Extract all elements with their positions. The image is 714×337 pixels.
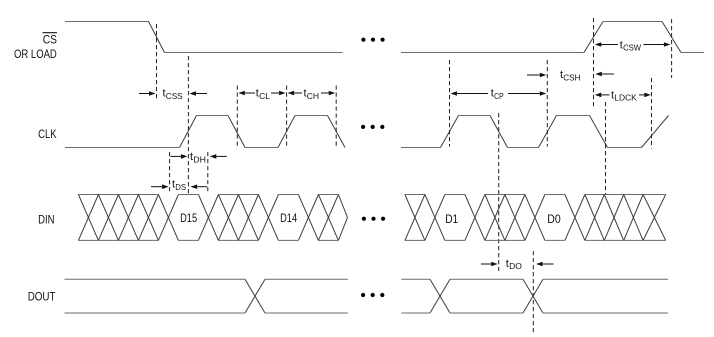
- arrow tCP right: [508, 93, 540, 95]
- wire DIN hatch X3: [118, 195, 138, 241]
- arrow tCSS left: [139, 93, 149, 95]
- svg-text:DS: DS: [175, 182, 186, 192]
- svg-text:D14: D14: [280, 211, 297, 225]
- wire DIN hatch X10: [505, 195, 525, 241]
- wire CLK fall 1: [228, 116, 245, 148]
- wire CLK high 2: [295, 115, 328, 117]
- arrow tCSW left: [601, 44, 618, 46]
- wire CLK low 2: [245, 147, 278, 149]
- wire DIN hatch X6: [238, 195, 258, 241]
- wire DIN hatch X14: [643, 195, 666, 241]
- wire DIN diverge after D1: [475, 195, 485, 241]
- guide CLK right fall 1 center: [498, 113, 500, 271]
- wire CLK right rise 3: [642, 116, 669, 148]
- wire DIN diverge after D0: [575, 195, 585, 241]
- wire DOUT left rails 1: [65, 279, 246, 313]
- wire DIN hatch X2: [98, 195, 118, 241]
- wire DIN D1 top-bottom: [445, 195, 465, 241]
- wire DOUT left rails 2: [265, 279, 348, 313]
- wire CLK right rise 2: [539, 116, 557, 148]
- wire DIN hatch X7: [318, 195, 338, 241]
- wire DIN D1 open: [435, 195, 445, 241]
- svg-text:OR LOAD: OR LOAD: [14, 47, 57, 61]
- wire DIN converge to D1: [425, 195, 435, 241]
- wire CLK right low 3: [608, 147, 642, 149]
- node DIN break dots: [362, 217, 366, 221]
- svg-text:DOUT: DOUT: [28, 289, 56, 303]
- wire DIN right rails start: [405, 195, 425, 241]
- wire DIN D14 open: [268, 195, 278, 241]
- arrow tDO right: [543, 263, 554, 265]
- wire DIN D15 open: [168, 195, 178, 241]
- wire DIN D15 close: [198, 195, 208, 241]
- arrow tCSH right: [602, 73, 614, 75]
- wire CLK fall 2: [328, 116, 346, 148]
- wire DIN hatch X5: [218, 195, 238, 241]
- guide CLK right rise 1 center: [449, 60, 451, 147]
- guide DIN D15 start: [169, 152, 171, 194]
- arrow tCH right: [321, 92, 329, 94]
- svg-text:D1: D1: [445, 212, 458, 226]
- wire DIN rails left-1: [78, 195, 158, 241]
- wire CS left high: [65, 21, 149, 23]
- guide CLK right rise 3 center: [651, 78, 653, 149]
- wire CLK right fall 2: [590, 116, 608, 148]
- arrow tDH right: [216, 155, 227, 157]
- wire CLK right low 1: [401, 147, 441, 149]
- wire CLK rise 1: [180, 116, 197, 148]
- node CS break dots: [361, 38, 365, 42]
- wire CLK high 1: [197, 115, 229, 117]
- wire DOUT crossover 1: [245, 279, 265, 313]
- wire CLK right high 1: [459, 115, 491, 117]
- wire DIN converge to D15: [158, 195, 168, 241]
- guide CLK right fall 2 end: [605, 102, 607, 194]
- wire DIN D14 close: [298, 195, 308, 241]
- wire DIN right rails mid: [485, 195, 525, 241]
- wire DIN D14 top-bottom: [278, 195, 298, 241]
- wire CS rising edge: [584, 22, 603, 53]
- wire DIN converge to D0: [525, 195, 535, 241]
- guide CS fall 2 center: [671, 19, 673, 78]
- svg-text:DO: DO: [509, 261, 522, 271]
- wire DIN D0 top-bottom: [545, 195, 565, 241]
- CS overline: [43, 32, 58, 34]
- svg-text:DIN: DIN: [38, 212, 54, 226]
- wire DIN hatch X12: [604, 195, 623, 241]
- wire DIN D0 close: [565, 195, 575, 241]
- arrow tCSW right: [644, 44, 664, 46]
- wire DIN hatch X8: [405, 195, 425, 241]
- svg-text:CP: CP: [494, 91, 504, 101]
- node CLK break dots: [361, 125, 365, 129]
- wire CLK right low 2: [508, 147, 539, 149]
- arrow tLDCK right: [639, 94, 644, 96]
- guide CS rise center: [593, 18, 595, 108]
- svg-text:D0: D0: [547, 212, 561, 226]
- arrow tDS left: [151, 186, 162, 188]
- wire DIN hatch X4: [138, 195, 158, 241]
- wire DOUT right rails 2: [450, 279, 523, 313]
- wire CS right high: [603, 21, 662, 23]
- arrow tCH left: [294, 92, 302, 94]
- wire DIN rails left-end: [318, 195, 338, 241]
- guide CLK rise 2 center: [286, 86, 288, 147]
- svg-text:LDCK: LDCK: [614, 93, 637, 103]
- wire DIN diverge after D15: [208, 195, 218, 241]
- wire CLK low 1: [65, 147, 180, 149]
- guide CS fall center: [156, 24, 158, 99]
- svg-text:D15: D15: [180, 211, 197, 225]
- wire DIN diverge after D14: [308, 195, 318, 241]
- svg-text:DH: DH: [193, 155, 206, 165]
- arrow tDO left: [481, 263, 491, 265]
- arrow tCSH left: [527, 74, 540, 76]
- wire DIN left end point: [338, 195, 347, 241]
- arrow tDS right: [197, 186, 207, 188]
- svg-text:CSH: CSH: [563, 72, 580, 82]
- node DOUT break dots: [361, 293, 365, 297]
- wire DOUT right rails 3: [543, 279, 668, 313]
- svg-text:CS: CS: [43, 32, 57, 46]
- wire CLK rise 2: [278, 116, 295, 148]
- arrow tCL right: [271, 92, 279, 94]
- wire DOUT crossover 3: [523, 279, 543, 313]
- arrow tDH left: [171, 155, 181, 157]
- guide CLK fall 1 center: [236, 86, 238, 147]
- wire DIN hatch X9: [485, 195, 505, 241]
- svg-text:CL: CL: [259, 91, 270, 101]
- guide CLK fall 2 center: [335, 86, 337, 147]
- guide DOUT transition: [532, 251, 534, 333]
- wire CS right low: [401, 52, 584, 54]
- wire DIN rails mid: [218, 195, 258, 241]
- wire DOUT right rails 1: [401, 279, 430, 313]
- arrow tCP left: [457, 93, 488, 95]
- wire DIN right rails end: [585, 195, 666, 241]
- guide DIN D15 end: [207, 152, 209, 194]
- wire CS falling edge 2: [662, 22, 681, 53]
- svg-text:CSW: CSW: [623, 43, 641, 53]
- wire DIN D0 open: [535, 195, 545, 241]
- wire DIN converge to D14: [258, 195, 268, 241]
- wire DIN hatch X1: [78, 195, 98, 241]
- wire CLK right high 2: [557, 115, 590, 117]
- wire CS falling edge: [149, 22, 165, 53]
- wire CLK right rise 1: [441, 116, 459, 148]
- wire DOUT crossover 2: [430, 279, 450, 313]
- svg-text:CLK: CLK: [38, 127, 57, 141]
- wire DIN D1 close: [465, 195, 475, 241]
- arrow tLDCK left: [601, 94, 609, 96]
- arrow tCSS right: [196, 93, 207, 95]
- svg-text:CH: CH: [307, 91, 319, 101]
- svg-text:CSS: CSS: [166, 91, 183, 101]
- wire CS left low: [165, 52, 343, 54]
- wire DIN hatch X11: [585, 195, 604, 241]
- wire CLK right fall 1: [490, 116, 508, 148]
- guide CLK right rise 2 center: [546, 60, 548, 147]
- wire DIN hatch X13: [624, 195, 643, 241]
- arrow tCL left: [245, 92, 255, 94]
- guide CLK rise 1 center: [187, 56, 189, 194]
- wire CS right low 2: [681, 52, 704, 54]
- wire DIN D15 top-bottom: [178, 195, 198, 241]
